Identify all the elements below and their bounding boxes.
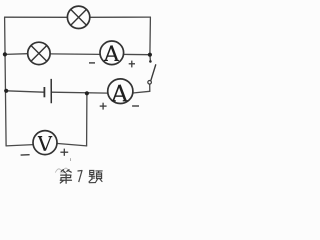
- wire A2 to switch horizontal: [133, 91, 150, 93]
- wire battery right: [52, 91, 108, 94]
- wire right vertical: [149, 17, 152, 55]
- wire battery left: [6, 91, 44, 92]
- battery cell positive long plate: [50, 79, 52, 103]
- label A2 plus: [100, 103, 107, 110]
- caption: character 第: [60, 170, 71, 184]
- wire row2 right: [123, 53, 150, 55]
- label V plus: [60, 149, 68, 156]
- lamp L2: [28, 42, 50, 64]
- wire top-right segment: [90, 16, 150, 18]
- label A1 plus: [129, 61, 135, 68]
- caption: digit 7: [78, 171, 83, 183]
- label A2 minus: [132, 105, 139, 107]
- caption: character 题: [89, 170, 102, 182]
- wire row2 middle: [51, 53, 101, 56]
- voltmeter V: [33, 131, 57, 155]
- ammeter A1: [100, 41, 124, 65]
- stray faint tick: [70, 158, 72, 161]
- wire voltmeter branch vertical: [86, 93, 88, 146]
- lamp L1: [67, 6, 89, 28]
- node junction voltmeter branch: [85, 91, 89, 95]
- stray faint pencil squiggle: [55, 168, 69, 173]
- wire bottom left: [6, 145, 33, 146]
- ammeter A2: [108, 79, 133, 104]
- label V minus: [21, 154, 30, 156]
- label A1 minus: [89, 62, 95, 64]
- node junction left battery: [4, 89, 8, 93]
- wire row2 left: [5, 53, 28, 56]
- switch S top terminal: [149, 60, 152, 63]
- switch S pivot terminal: [148, 81, 152, 85]
- switch S lever: [151, 65, 156, 81]
- node junction left row2: [3, 52, 7, 56]
- wire voltmeter right: [58, 144, 87, 146]
- node junction right A1: [148, 53, 152, 57]
- battery cell negative short plate: [43, 87, 45, 97]
- wire left vertical: [5, 17, 7, 146]
- wire switch bottom stub: [149, 84, 151, 91]
- wire switch top stub: [149, 55, 152, 62]
- wire top-left segment: [5, 16, 68, 18]
